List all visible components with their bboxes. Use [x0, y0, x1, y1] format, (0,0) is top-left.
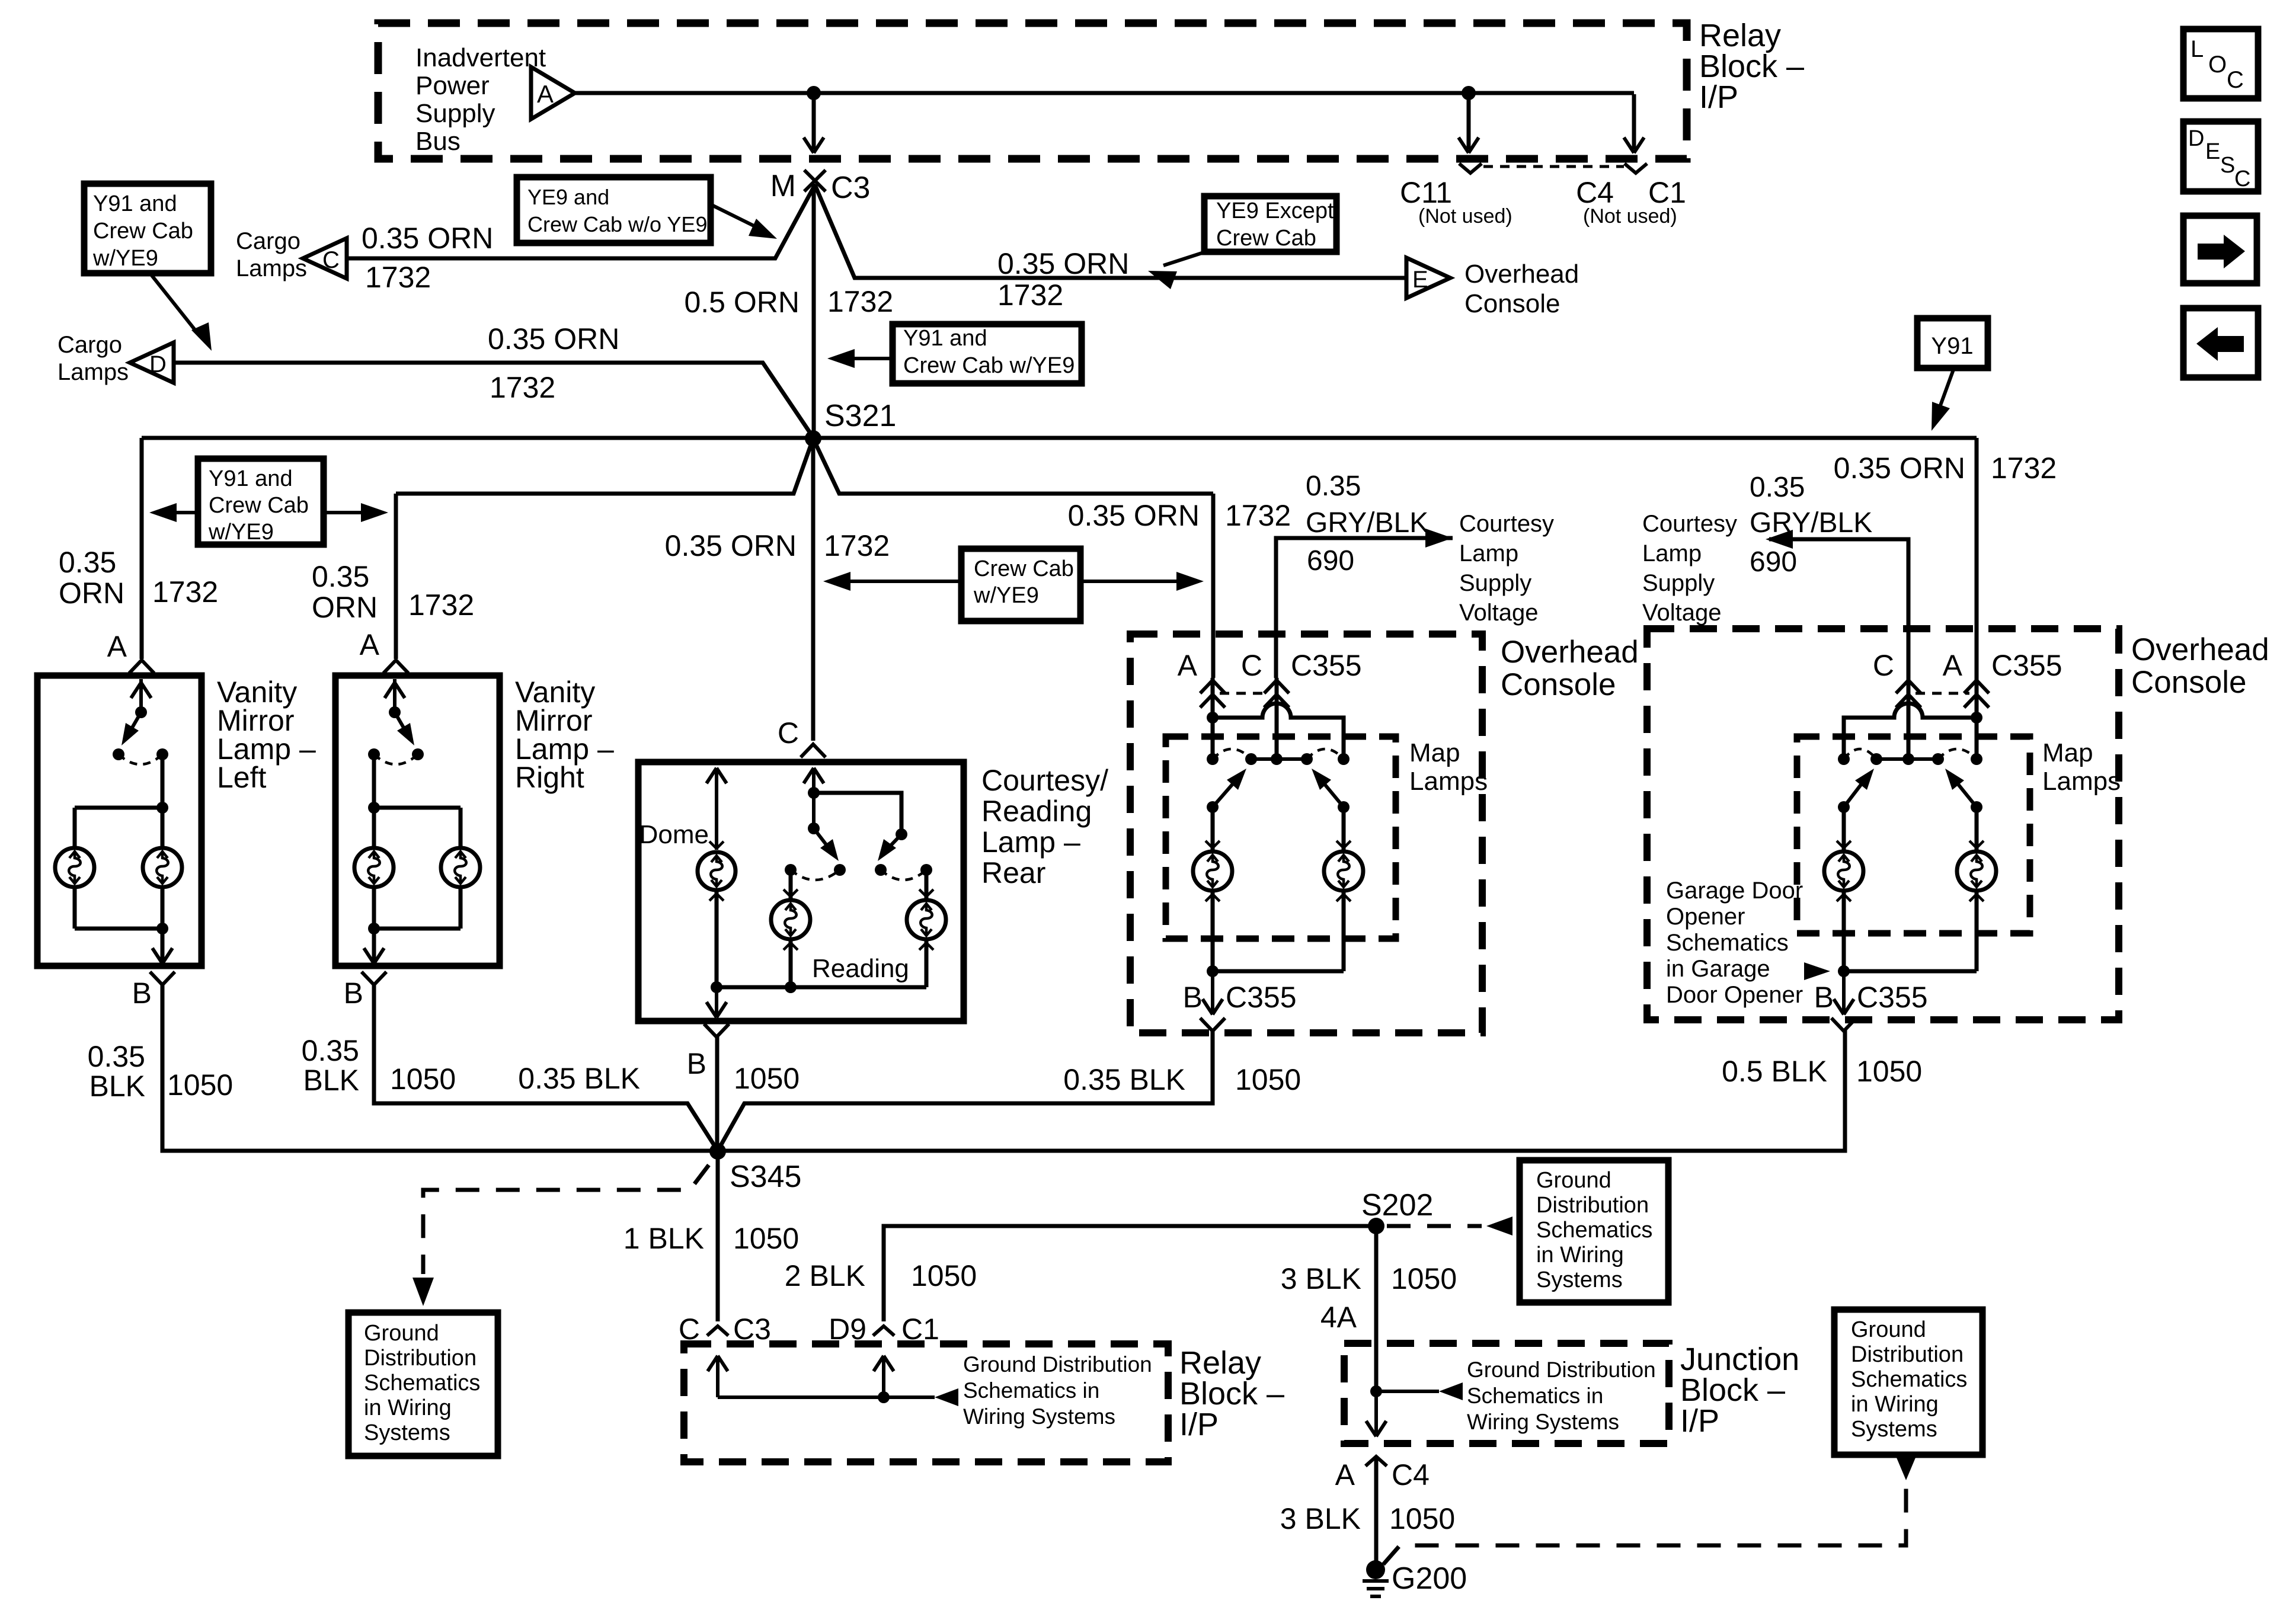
wire: inadvertent power bus [575, 91, 1634, 95]
connector B left vanity [132, 972, 175, 1010]
wire map lamps bottom collector (right) [1838, 891, 1977, 977]
svg-text:0.35 ORN: 0.35 ORN [362, 222, 493, 255]
label 0.35 ORN (left vanity feed) [59, 546, 218, 610]
svg-text:Map: Map [1409, 738, 1460, 767]
leader arrow right from Crew Cab box [1080, 572, 1204, 591]
svg-text:M: M [770, 169, 796, 203]
svg-text:Door Opener: Door Opener [1666, 982, 1803, 1008]
box: Y91 and Crew Cab w/YE9 (upper left) [84, 184, 211, 273]
wire reading lamp 2 [925, 870, 929, 898]
svg-text:Schematics: Schematics [364, 1371, 480, 1395]
map lamp switch arm 2 (left console) [1312, 769, 1350, 813]
wire lamp branch top (left vanity) [75, 808, 162, 848]
wire 1050 BLK: S202 down to junction block [1374, 1226, 1379, 1391]
leader arrow from YE9 Except box [1148, 252, 1205, 289]
box: Ground Distribution Schematics in Wiring Systems (S202) [1520, 1160, 1668, 1302]
label 1732 (main feed) [827, 285, 893, 318]
wire 1050 BLK: left console B to S345 [718, 1029, 1213, 1151]
svg-text:Lamps: Lamps [1409, 767, 1488, 796]
svg-text:1732: 1732 [1991, 452, 2057, 485]
label Overhead Console (right) [2131, 632, 2269, 700]
connector A left vanity [107, 630, 154, 673]
svg-text:C4: C4 [1392, 1458, 1430, 1491]
svg-text:C: C [1873, 649, 1894, 682]
svg-text:Schematics: Schematics [1536, 1218, 1652, 1243]
label Map Lamps (left) [1409, 738, 1488, 796]
svg-text:I/P: I/P [1699, 79, 1738, 115]
svg-text:0.35 ORN: 0.35 ORN [1834, 452, 1965, 485]
svg-text:GRY/BLK: GRY/BLK [1750, 507, 1872, 539]
svg-text:Dome: Dome [639, 820, 709, 849]
svg-text:YE9 Except: YE9 Except [1216, 199, 1334, 223]
svg-text:1732: 1732 [365, 261, 431, 294]
svg-text:Reading: Reading [812, 954, 909, 983]
svg-text:1050: 1050 [167, 1068, 233, 1102]
svg-text:C3: C3 [831, 171, 870, 205]
svg-text:B: B [1183, 981, 1203, 1014]
svg-text:Distribution: Distribution [364, 1346, 477, 1371]
connector D9 / C1 (relay block) [829, 1313, 939, 1346]
svg-text:Console: Console [1501, 667, 1616, 702]
svg-text:1732: 1732 [824, 529, 890, 562]
label Reading [812, 954, 909, 983]
label Garage Door Opener Schematics [1666, 878, 1803, 1008]
map lamp contact arcs (right console) [1844, 749, 1977, 759]
label Map Lamps (right) [2042, 738, 2121, 796]
svg-text:1050: 1050 [1856, 1055, 1922, 1088]
connector A right vanity [360, 628, 408, 673]
bulb right-1 [354, 808, 394, 887]
courtesy left switch arm [814, 828, 839, 861]
relay block internal ground wire D9 side [874, 1356, 894, 1403]
right arrow reference box [2183, 216, 2257, 283]
DESC reference box [2183, 121, 2258, 191]
svg-text:D: D [2188, 126, 2204, 151]
svg-text:Wiring Systems: Wiring Systems [1467, 1410, 1619, 1434]
svg-text:Courtesy: Courtesy [1642, 511, 1737, 537]
svg-text:Relay: Relay [1699, 18, 1781, 53]
wire 690 GRY/BLK: right console C to courtesy supply [1766, 530, 1908, 678]
svg-text:Wiring Systems: Wiring Systems [963, 1404, 1115, 1429]
svg-text:ORN: ORN [312, 591, 378, 624]
svg-text:0.35: 0.35 [302, 1034, 359, 1067]
label 0.35 BLK 1050 (left vanity) [88, 1040, 234, 1103]
svg-text:Lamp: Lamp [1642, 540, 1702, 566]
svg-text:C355: C355 [1991, 649, 2062, 682]
label 3 BLK (lower) [1280, 1502, 1361, 1535]
svg-text:2 BLK: 2 BLK [785, 1259, 865, 1292]
wire: bus drop to C11 (not used) [1459, 93, 1479, 153]
component box: Courtesy/Reading Lamp - Rear [638, 762, 964, 1021]
wire dome lamp to bottom [711, 891, 722, 993]
svg-text:4A: 4A [1320, 1301, 1357, 1334]
svg-text:C: C [1241, 649, 1262, 682]
svg-text:Crew Cab w/o YE9: Crew Cab w/o YE9 [527, 212, 707, 236]
courtesy right contacts + arc [875, 864, 932, 880]
label Vanity Mirror Lamp - Right [515, 676, 614, 794]
bulb right-2 [441, 848, 480, 887]
svg-text:Supply: Supply [415, 99, 495, 128]
switch arm (left vanity) [121, 712, 141, 745]
node S345 splice [709, 1143, 801, 1194]
dashed link C-A connectors (right console) [1916, 692, 1969, 695]
label 2 BLK [785, 1259, 865, 1292]
connector C4 / C1 (not used) [1576, 164, 1686, 228]
svg-text:L: L [2191, 36, 2204, 62]
left console output arrow B [1203, 971, 1223, 1014]
svg-text:C4: C4 [1576, 176, 1614, 209]
wire map lamps bottom collector (left) [1207, 891, 1344, 977]
svg-text:Y91: Y91 [1931, 333, 1973, 359]
connector C / C3 (relay block) [679, 1313, 771, 1346]
box: Y91 and Crew Cab w/YE9 (between vanity lamps) [198, 459, 324, 545]
wire 1732 ORN: S321 trunk line (left vanity to right console) [142, 438, 1977, 717]
connector C / C355 (left console) [1241, 649, 1362, 708]
map lamps dashed enclosure (right) [1797, 737, 2030, 933]
svg-text:B: B [132, 977, 152, 1010]
label Courtesy/Reading Lamp - Rear [981, 764, 1108, 889]
label Relay Block - I/P (bottom) [1179, 1345, 1284, 1442]
svg-text:Supply: Supply [1459, 570, 1531, 596]
svg-text:3 BLK: 3 BLK [1280, 1502, 1361, 1535]
overhead console dashed enclosure (left) [1130, 634, 1482, 1033]
wire 1050 BLK: C4 to G200 [1374, 1457, 1379, 1561]
svg-text:Crew Cab w/YE9: Crew Cab w/YE9 [903, 353, 1075, 378]
label 1050 (left console ground) [1235, 1063, 1301, 1096]
ground G200 [1363, 1560, 1467, 1596]
label 1 BLK (S345 to C3) [623, 1222, 704, 1255]
wire 1732 ORN: S321 to cargo lamps D [174, 363, 813, 437]
wire 1050 BLK: courtesy B to S345 [715, 1037, 720, 1151]
svg-text:in Garage: in Garage [1666, 956, 1770, 982]
svg-text:Ground Distribution: Ground Distribution [1467, 1358, 1656, 1382]
svg-text:GRY/BLK: GRY/BLK [1306, 507, 1428, 539]
bulb dome [698, 841, 736, 901]
svg-text:Voltage: Voltage [1459, 600, 1538, 626]
leader arrow from Y91 box to D line [150, 273, 212, 351]
label 1732 (D line) [490, 371, 555, 404]
box: Ground Distribution Schematics in Wiring Systems (left) [348, 1313, 498, 1456]
switch feed (left vanity) [131, 679, 151, 718]
svg-text:3 BLK: 3 BLK [1281, 1262, 1361, 1295]
svg-text:in Wiring: in Wiring [1536, 1243, 1624, 1267]
svg-text:B: B [687, 1047, 706, 1080]
dome lamp feed arrow [706, 768, 727, 850]
svg-text:Schematics in: Schematics in [1467, 1384, 1603, 1408]
connector M / C3 (mated pair symbol) [770, 169, 871, 205]
svg-text:0.35: 0.35 [312, 560, 369, 593]
label Inadvertent Power Supply Bus [415, 43, 546, 156]
relay block I/P dashed enclosure (top) [378, 23, 1687, 159]
left arrow reference box [2183, 308, 2258, 377]
svg-text:Ground: Ground [364, 1321, 439, 1346]
svg-text:1050: 1050 [734, 1062, 800, 1095]
svg-text:A: A [1335, 1458, 1355, 1491]
svg-text:0.35: 0.35 [88, 1040, 145, 1073]
node: bus junction at C11 drop [1462, 86, 1476, 100]
svg-text:Garage Door: Garage Door [1666, 878, 1803, 904]
svg-text:Junction: Junction [1680, 1342, 1799, 1377]
switch contacts + arc (right vanity) [368, 748, 424, 764]
svg-text:D: D [149, 351, 167, 377]
wire 1050 BLK: right vanity B to S345 [374, 985, 718, 1151]
svg-text:Ground Distribution: Ground Distribution [963, 1352, 1152, 1377]
svg-text:1732: 1732 [1225, 499, 1291, 532]
svg-text:Crew Cab: Crew Cab [974, 556, 1074, 581]
svg-text:Voltage: Voltage [1642, 600, 1721, 626]
dashed route G200 to ground distribution box (right) [1383, 1458, 1916, 1564]
label 0.35 BLK (courtesy ground) [518, 1062, 640, 1095]
svg-text:0.35 BLK: 0.35 BLK [1063, 1063, 1185, 1096]
wire courtesy bottom collector [717, 985, 926, 990]
LOC reference box [2183, 29, 2258, 98]
wire 1732 ORN: S321 to right vanity / left console branch [396, 438, 1213, 678]
svg-text:Courtesy/: Courtesy/ [981, 764, 1108, 797]
wire to map bulb 1 (left) [1211, 807, 1215, 850]
svg-text:(Not used): (Not used) [1418, 205, 1512, 228]
svg-text:0.35: 0.35 [1750, 472, 1805, 503]
wire 1050 BLK: relay block C1 to S202 [884, 1226, 1376, 1321]
node: bus junction at C3 drop [807, 86, 821, 100]
map lamp switch arm 2 (right console) [1945, 769, 1982, 813]
dashed link C11 to C4 [1483, 165, 1624, 168]
svg-text:w/YE9: w/YE9 [208, 520, 274, 545]
connector A / C355 (right console) [1943, 649, 2062, 708]
label Courtesy Lamp Supply Voltage (left) [1459, 511, 1554, 626]
svg-text:A: A [1943, 649, 1963, 682]
svg-text:C355: C355 [1857, 981, 1928, 1014]
wire: C drop inside left console [1275, 678, 1279, 759]
svg-text:B: B [344, 977, 363, 1010]
wire 1050 BLK: S345 long line to right console B [718, 1029, 1845, 1151]
svg-text:C1: C1 [1648, 176, 1686, 209]
map lamps dashed enclosure (left) [1166, 737, 1396, 939]
label 0.35 ORN (courtesy feed) [665, 529, 797, 562]
svg-text:Y91 and: Y91 and [93, 191, 177, 216]
wire: A feed hop over C wire (left console) [1213, 703, 1344, 759]
svg-text:Crew Cab: Crew Cab [93, 219, 193, 244]
svg-text:Lamps: Lamps [2042, 767, 2121, 796]
wire lamp branch top (right vanity) [374, 808, 461, 848]
leader arrow from Y91 box [1932, 368, 1954, 431]
svg-text:C355: C355 [1291, 649, 1362, 682]
svg-text:0.5 ORN: 0.5 ORN [684, 286, 800, 319]
svg-text:Distribution: Distribution [1536, 1193, 1649, 1218]
svg-text:C: C [322, 247, 340, 273]
svg-text:Schematics: Schematics [1666, 930, 1789, 956]
svg-text:Courtesy: Courtesy [1459, 511, 1554, 537]
svg-text:Supply: Supply [1642, 570, 1715, 596]
bulb reading-2 [907, 889, 946, 950]
svg-text:1050: 1050 [733, 1222, 799, 1255]
leader arrow left from Crew Cab box [823, 572, 961, 591]
svg-text:A: A [107, 630, 127, 663]
label 1050 (3 BLK lower) [1389, 1502, 1455, 1535]
connector triangle C (cargo lamps) [303, 238, 347, 279]
label 1732 (E line) [997, 279, 1063, 312]
svg-text:Systems: Systems [1851, 1417, 1937, 1442]
label Junction Block - I/P [1680, 1342, 1799, 1439]
label Overhead Console (E) [1464, 260, 1579, 318]
svg-text:Cargo: Cargo [236, 228, 300, 254]
label 3 BLK (upper) [1281, 1262, 1361, 1295]
wire reading lamp 1 [789, 870, 793, 898]
label 0.35 ORN (C line) [362, 222, 493, 255]
svg-text:B: B [1814, 981, 1834, 1014]
leader arrow left from Y91 vanity box [149, 503, 198, 522]
courtesy output arrow B [706, 987, 727, 1017]
wire 1050 BLK: S345 down to relay block C3 [716, 1151, 720, 1321]
label 0.35 BLK (left console ground) [1063, 1063, 1185, 1096]
svg-text:Lamps: Lamps [236, 255, 307, 281]
junction block internal tie line [1376, 1382, 1463, 1400]
svg-text:S202: S202 [1361, 1188, 1433, 1222]
wire: C drop inside right console [1907, 678, 1911, 759]
svg-text:Lamp –: Lamp – [981, 825, 1080, 859]
svg-text:690: 690 [1750, 546, 1797, 578]
label 1050 (2 BLK) [911, 1259, 977, 1292]
svg-text:S345: S345 [730, 1160, 801, 1194]
svg-text:Bus: Bus [415, 127, 461, 156]
overhead console dashed enclosure (right) [1647, 629, 2119, 1020]
connector B / C355 (right console) [1814, 981, 1928, 1031]
label 0.35 ORN (E line) [997, 247, 1129, 280]
svg-text:Console: Console [1464, 289, 1560, 318]
node S321 splice [805, 399, 896, 447]
switch feed (right vanity) [385, 679, 405, 718]
svg-text:690: 690 [1307, 545, 1354, 577]
wire: A drop inside left console [1207, 678, 1219, 759]
svg-text:Overhead: Overhead [1464, 260, 1579, 289]
leader arrow right from Y91 vanity box [324, 503, 388, 522]
svg-text:(Not used): (Not used) [1583, 205, 1677, 228]
relay block internal ground wire C3 side [708, 1356, 728, 1397]
svg-text:1732: 1732 [152, 575, 218, 609]
label 0.35 ORN (left console A wire) [1068, 499, 1200, 532]
label 1050 (right console ground, line) [1856, 1055, 1922, 1088]
wire to lamp tee (right vanity) [368, 754, 380, 814]
junction block exit arrow [1366, 1391, 1386, 1436]
svg-text:G200: G200 [1392, 1561, 1467, 1596]
box: Y91 and Crew Cab w/YE9 (mid, with arrow) [893, 324, 1082, 383]
svg-text:1 BLK: 1 BLK [623, 1222, 704, 1255]
svg-text:C11: C11 [1400, 176, 1452, 209]
label 1732 (left console A wire) [1225, 499, 1291, 532]
svg-text:1050: 1050 [390, 1062, 456, 1096]
svg-text:C: C [2234, 167, 2250, 191]
svg-text:E: E [2205, 139, 2220, 164]
svg-text:I/P: I/P [1680, 1403, 1719, 1439]
svg-text:Map: Map [2042, 738, 2093, 767]
connector C / C355 (right console) [1873, 649, 1921, 708]
bulb map-1 (right console) [1824, 841, 1863, 901]
connector triangle A (inadvertent power supply bus) [531, 67, 575, 119]
connector C courtesy lamp [778, 716, 826, 757]
label 0.5 ORN (main feed) [684, 286, 800, 319]
box: YE9 and Crew Cab w/o YE9 [517, 177, 711, 243]
label 1732 (C line) [365, 261, 431, 294]
courtesy left contacts + arc [785, 864, 846, 880]
courtesy feed entry arrow [804, 768, 824, 828]
leader arrow garage door opener [1804, 962, 1830, 980]
label 4A [1320, 1301, 1357, 1334]
label 1050 (S345 to C3) [733, 1222, 799, 1255]
label 1050 (3 BLK upper) [1391, 1262, 1457, 1295]
courtesy right switch arm [878, 834, 901, 861]
label 0.35 GRY/BLK 690 (right) [1750, 472, 1872, 578]
svg-text:Overhead: Overhead [2131, 632, 2269, 667]
output arrow to B (right vanity) [364, 929, 384, 964]
svg-text:S321: S321 [824, 399, 896, 433]
box: Y91 (top right) [1917, 318, 1988, 368]
connector A / C355 (left console) [1178, 649, 1225, 708]
svg-text:Cargo: Cargo [57, 332, 122, 358]
switch contacts + arc (left vanity) [113, 748, 168, 764]
svg-text:A: A [1178, 649, 1198, 682]
wire to map bulb 2 (right) [1975, 807, 1979, 850]
label 1732 (courtesy feed) [824, 529, 890, 562]
svg-text:Right: Right [515, 761, 584, 794]
svg-text:C: C [2227, 67, 2244, 93]
svg-text:I/P: I/P [1179, 1407, 1219, 1442]
connector triangle D (cargo lamps) [130, 343, 174, 383]
svg-text:Ground: Ground [1851, 1317, 1926, 1342]
label Courtesy Lamp Supply Voltage (right) [1642, 511, 1737, 626]
svg-text:Distribution: Distribution [1851, 1342, 1964, 1367]
connector B right vanity [344, 972, 386, 1010]
right console output arrow B [1834, 971, 1854, 1014]
label 0.35 ORN (right console feed) [1834, 452, 1965, 485]
node S202 splice [1361, 1188, 1433, 1234]
svg-text:Ground: Ground [1536, 1168, 1611, 1193]
wire: bus drop to C4/C1 (not used) [1624, 94, 1644, 153]
box: Ground Distribution Schematics in Wiring Systems (right) [1834, 1310, 1982, 1455]
svg-text:Crew Cab: Crew Cab [209, 493, 309, 518]
bulb map-2 (right console) [1957, 841, 1996, 901]
map lamp contacts (left console) [1207, 753, 1350, 765]
wire: A feed hop over C wire (right console) [1844, 703, 1977, 759]
bulb map-1 (left console) [1193, 841, 1232, 901]
relay block I/P dashed enclosure (bottom) [684, 1344, 1168, 1462]
map lamp contacts (right console) [1838, 753, 1982, 765]
svg-text:0.35: 0.35 [1306, 470, 1361, 502]
wire: A drop inside right console [1971, 678, 1982, 759]
label 1050 (courtesy ground) [734, 1062, 800, 1095]
svg-text:Lamp: Lamp [1459, 540, 1518, 566]
svg-text:Overhead: Overhead [1501, 635, 1639, 670]
dashed route S345 to ground distribution box [412, 1165, 709, 1306]
label Vanity Mirror Lamp - Left [217, 676, 316, 794]
svg-text:Inadvertent: Inadvertent [415, 43, 546, 72]
dashed route S202 to ground distribution box [1387, 1217, 1512, 1235]
label 0.5 BLK (right console ground) [1722, 1055, 1827, 1088]
svg-text:w/YE9: w/YE9 [973, 583, 1039, 608]
component box: Vanity Mirror Lamp - Left [37, 676, 202, 966]
component box: Vanity Mirror Lamp - Right [335, 676, 500, 966]
label 0.35 BLK 1050 (right vanity) [302, 1034, 456, 1097]
output arrow to B (left vanity) [152, 929, 172, 964]
wire 1732 ORN: C3 down to S321 [812, 184, 816, 438]
bulb left-1 [55, 848, 94, 887]
svg-text:Reading: Reading [981, 795, 1092, 828]
svg-text:1732: 1732 [490, 371, 555, 404]
map lamp contact arcs (left console) [1213, 749, 1344, 759]
wire reading-1 to bottom [785, 939, 797, 993]
wire 1050 BLK: left vanity B to S345 [162, 985, 718, 1151]
svg-text:C: C [778, 716, 799, 750]
svg-text:Block –: Block – [1699, 49, 1804, 84]
courtesy feed to right switch [814, 793, 907, 840]
